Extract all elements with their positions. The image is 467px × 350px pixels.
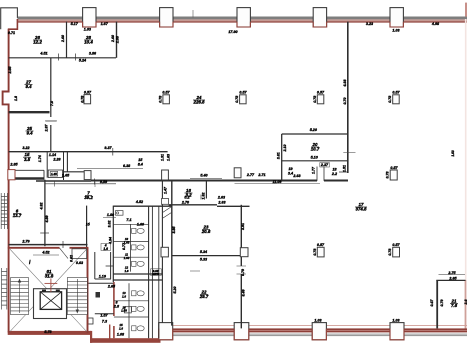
svg-text:12.2: 12.2	[33, 40, 42, 45]
svg-text:1.57: 1.57	[100, 313, 108, 317]
svg-text:2.97: 2.97	[45, 124, 49, 133]
svg-text:2.75: 2.75	[447, 271, 456, 275]
svg-text:0.57: 0.57	[392, 91, 400, 95]
svg-text:2.88: 2.88	[115, 36, 119, 44]
svg-text:0.78: 0.78	[386, 172, 390, 179]
svg-text:2.65: 2.65	[107, 285, 116, 289]
svg-text:1.19: 1.19	[99, 274, 107, 278]
svg-text:2.65: 2.65	[448, 277, 457, 281]
svg-text:20.6: 20.6	[201, 229, 211, 234]
svg-text:2.2: 2.2	[331, 172, 338, 176]
svg-text:1.6: 1.6	[122, 294, 126, 298]
svg-text:1.63: 1.63	[451, 150, 455, 156]
svg-text:1.74: 1.74	[38, 155, 42, 162]
svg-text:2.71: 2.71	[257, 173, 265, 177]
svg-text:2.37: 2.37	[320, 163, 329, 167]
svg-text:3.23: 3.23	[366, 22, 374, 26]
svg-text:3.91: 3.91	[241, 223, 245, 230]
svg-text:3.61: 3.61	[277, 152, 281, 159]
svg-text:0.77: 0.77	[122, 242, 126, 250]
svg-text:5.40: 5.40	[200, 173, 208, 177]
svg-text:1.03: 1.03	[392, 318, 400, 322]
svg-text:1.65: 1.65	[62, 174, 70, 178]
svg-text:6.49: 6.49	[242, 290, 246, 297]
svg-text:4.52: 4.52	[135, 200, 144, 204]
svg-text:374.8: 374.8	[356, 207, 368, 212]
svg-text:2.79: 2.79	[21, 240, 30, 244]
svg-text:1.03: 1.03	[314, 318, 322, 322]
svg-text:4.98: 4.98	[431, 22, 440, 26]
svg-text:1.08: 1.08	[117, 332, 125, 336]
svg-text:11.09: 11.09	[273, 180, 283, 184]
svg-text:7.1: 7.1	[126, 218, 131, 222]
svg-text:0.71: 0.71	[8, 31, 15, 35]
svg-text:ШП5: ШП5	[152, 272, 159, 276]
svg-text:3.86: 3.86	[89, 51, 97, 55]
svg-text:1.6: 1.6	[119, 326, 123, 330]
svg-text:0.57: 0.57	[317, 243, 325, 247]
svg-text:0.57: 0.57	[162, 91, 170, 95]
svg-text:9.59: 9.59	[100, 180, 108, 184]
svg-text:31.8: 31.8	[45, 274, 54, 279]
svg-text:0.78: 0.78	[158, 96, 162, 103]
svg-text:2.63: 2.63	[217, 200, 226, 204]
svg-text:2.55: 2.55	[8, 66, 12, 75]
svg-text:1.45: 1.45	[51, 172, 57, 176]
svg-text:10.7: 10.7	[311, 147, 320, 152]
svg-text:2.60: 2.60	[111, 35, 115, 43]
svg-text:0.78: 0.78	[81, 96, 85, 103]
svg-text:0.78: 0.78	[388, 249, 392, 256]
svg-text:2.10: 2.10	[283, 145, 287, 153]
svg-text:1.47: 1.47	[164, 186, 168, 194]
svg-text:2.63: 2.63	[292, 174, 301, 178]
svg-text:2.77: 2.77	[246, 173, 255, 177]
svg-text:0.78: 0.78	[313, 96, 317, 103]
svg-text:5.20: 5.20	[173, 287, 177, 294]
svg-text:5.17: 5.17	[71, 22, 79, 26]
svg-text:10.4: 10.4	[84, 40, 93, 45]
svg-text:9.4: 9.4	[25, 84, 32, 89]
svg-text:0.57: 0.57	[84, 90, 92, 94]
svg-text:0.57: 0.57	[390, 166, 398, 170]
svg-text:6.93: 6.93	[343, 80, 347, 87]
svg-text:3.85: 3.85	[172, 226, 176, 234]
svg-text:3.5: 3.5	[24, 157, 31, 162]
svg-text:5.20: 5.20	[310, 128, 318, 132]
svg-text:5.78: 5.78	[44, 330, 52, 334]
svg-text:13.7: 13.7	[13, 213, 22, 218]
svg-text:0.78: 0.78	[313, 249, 317, 256]
svg-text:1.51: 1.51	[343, 165, 347, 172]
svg-text:0.63: 0.63	[76, 261, 84, 265]
svg-text:4.51: 4.51	[39, 51, 47, 55]
svg-text:6.38: 6.38	[123, 164, 131, 168]
svg-text:4.92: 4.92	[40, 203, 44, 211]
svg-text:1.77: 1.77	[312, 166, 316, 174]
svg-text:1.63: 1.63	[167, 154, 171, 161]
svg-text:1.67: 1.67	[101, 22, 109, 26]
svg-text:9.37: 9.37	[104, 146, 112, 150]
svg-text:39.2: 39.2	[84, 195, 93, 200]
svg-text:1.03: 1.03	[392, 28, 400, 32]
svg-text:1.03: 1.03	[84, 27, 92, 31]
svg-text:5.33: 5.33	[200, 258, 208, 262]
svg-text:2.63: 2.63	[217, 196, 226, 200]
svg-text:1.6: 1.6	[103, 247, 108, 251]
svg-text:0.57: 0.57	[317, 91, 325, 95]
svg-text:29.7: 29.7	[199, 294, 209, 299]
svg-text:2.26: 2.26	[52, 158, 61, 162]
svg-text:1.8: 1.8	[14, 96, 18, 101]
svg-text:2.8: 2.8	[113, 305, 120, 309]
svg-text:2.70: 2.70	[181, 200, 190, 204]
svg-text:5.10: 5.10	[311, 156, 319, 160]
svg-text:0.67: 0.67	[430, 299, 434, 307]
svg-text:1.63: 1.63	[124, 256, 130, 260]
svg-text:0.57: 0.57	[239, 91, 247, 95]
svg-text:0.79: 0.79	[440, 300, 444, 307]
svg-text:5.24: 5.24	[79, 59, 86, 63]
svg-text:1.14: 1.14	[49, 153, 56, 157]
svg-text:3.22: 3.22	[22, 146, 30, 150]
svg-text:0.70: 0.70	[343, 98, 347, 105]
svg-text:2.85: 2.85	[9, 163, 18, 167]
svg-text:7.0: 7.0	[50, 101, 54, 106]
svg-text:17.90: 17.90	[228, 30, 238, 34]
svg-text:1.60: 1.60	[137, 222, 145, 226]
svg-text:0.78: 0.78	[235, 96, 239, 103]
svg-text:3.4: 3.4	[288, 171, 293, 175]
svg-text:1.80: 1.80	[107, 213, 115, 217]
svg-text:9.4: 9.4	[26, 131, 33, 136]
svg-text:1.92: 1.92	[202, 193, 206, 200]
svg-text:0.57: 0.57	[392, 243, 400, 247]
svg-text:4.89: 4.89	[45, 216, 49, 224]
svg-text:3.02: 3.02	[107, 221, 111, 228]
svg-text:0.62: 0.62	[70, 255, 74, 262]
svg-text:0.79: 0.79	[241, 269, 245, 276]
svg-text:8.4: 8.4	[138, 163, 143, 167]
svg-text:1.6: 1.6	[124, 269, 128, 273]
svg-text:226.8: 226.8	[193, 100, 206, 105]
svg-text:5.34: 5.34	[200, 250, 207, 254]
svg-text:4.52: 4.52	[41, 251, 50, 255]
svg-text:0.78: 0.78	[388, 96, 392, 103]
svg-text:1.31: 1.31	[161, 154, 165, 161]
svg-text:2.60: 2.60	[61, 35, 65, 43]
svg-text:7.6: 7.6	[451, 303, 458, 308]
svg-text:1.58: 1.58	[121, 309, 127, 313]
